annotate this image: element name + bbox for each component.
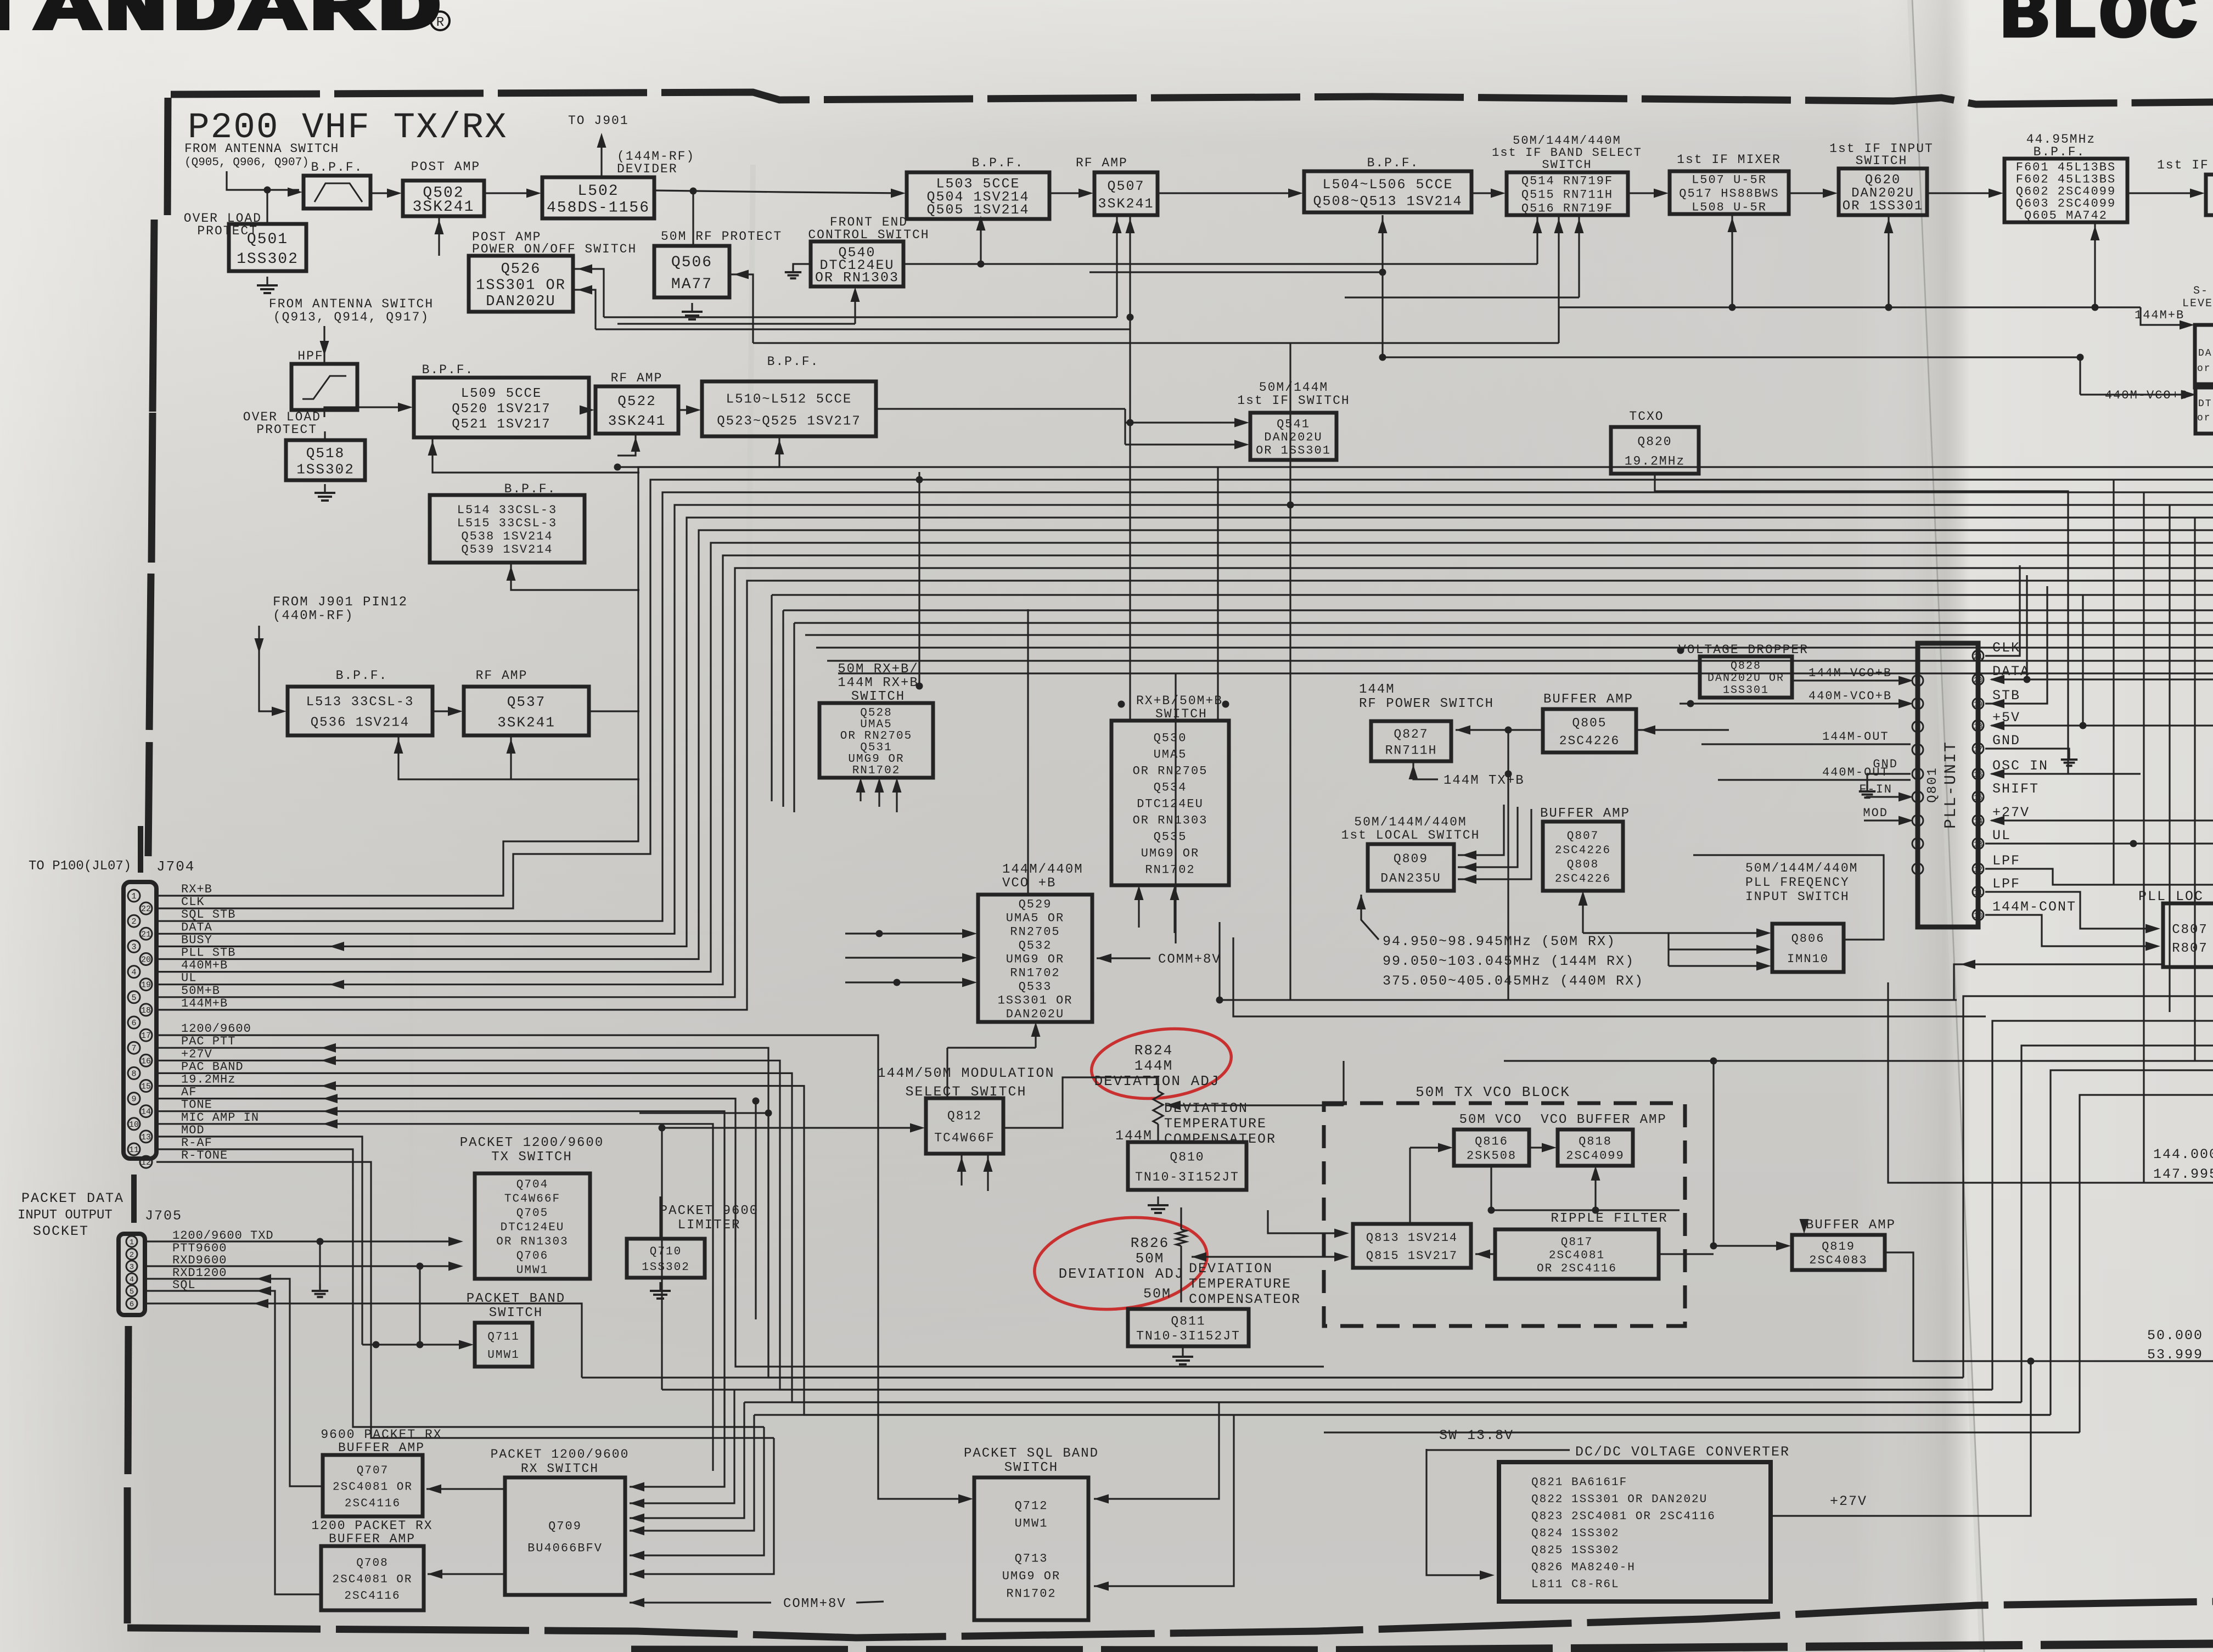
- svg-text:J704: J704: [156, 858, 195, 875]
- svg-text:Q707: Q707: [357, 1464, 389, 1477]
- svg-text:FROM ANTENNA SWITCH: FROM ANTENNA SWITCH: [269, 297, 434, 311]
- svg-text:1SS301 OR: 1SS301 OR: [998, 994, 1073, 1008]
- svg-text:50M/144M: 50M/144M: [1259, 380, 1328, 395]
- svg-text:16: 16: [1974, 771, 1983, 779]
- svg-text:RF POWER SWITCH: RF POWER SWITCH: [1359, 696, 1494, 711]
- svg-text:10: 10: [129, 1120, 139, 1130]
- svg-text:or: or: [2197, 413, 2211, 424]
- svg-text:DAN202U: DAN202U: [1006, 1008, 1064, 1021]
- svg-text:2SC4226: 2SC4226: [1555, 873, 1611, 885]
- svg-text:TCXO: TCXO: [1629, 409, 1664, 424]
- svg-text:Q521 1SV217: Q521 1SV217: [452, 417, 551, 432]
- svg-text:94.950~98.945MHz (50M RX): 94.950~98.945MHz (50M RX): [1383, 934, 1616, 949]
- svg-text:Q713: Q713: [1015, 1552, 1048, 1566]
- svg-text:SWITCH: SWITCH: [489, 1306, 543, 1321]
- svg-text:1st IF SWITCH: 1st IF SWITCH: [1237, 394, 1350, 408]
- svg-text:DC/DC VOLTAGE CONVERTER: DC/DC VOLTAGE CONVERTER: [1575, 1444, 1790, 1460]
- svg-text:UMW1: UMW1: [487, 1349, 519, 1362]
- svg-text:Q505 1SV214: Q505 1SV214: [926, 202, 1029, 218]
- svg-text:Q824 1SS302: Q824 1SS302: [1531, 1527, 1620, 1540]
- svg-text:SOCKET: SOCKET: [33, 1223, 89, 1239]
- svg-text:2SC4081 OR: 2SC4081 OR: [332, 1574, 412, 1586]
- svg-text:TO J901: TO J901: [568, 114, 629, 128]
- svg-text:OR RN1303: OR RN1303: [815, 269, 899, 285]
- svg-text:Q709: Q709: [548, 1520, 582, 1533]
- svg-text:AF: AF: [181, 1086, 196, 1099]
- svg-text:5: 5: [130, 1288, 134, 1296]
- svg-text:50M: 50M: [1143, 1286, 1171, 1302]
- svg-text:10: 10: [1974, 912, 1983, 920]
- svg-text:RF AMP: RF AMP: [611, 371, 663, 385]
- svg-text:PLL-UNIT: PLL-UNIT: [1942, 741, 1961, 829]
- svg-text:1: 1: [1916, 677, 1920, 686]
- svg-text:1st IF MIXER: 1st IF MIXER: [1677, 153, 1781, 167]
- svg-text:Q518: Q518: [306, 445, 345, 462]
- svg-text:RIPPLE FILTER: RIPPLE FILTER: [1551, 1211, 1667, 1226]
- svg-text:RN1702: RN1702: [852, 765, 901, 777]
- svg-text:99.050~103.045MHz (144M RX): 99.050~103.045MHz (144M RX): [1383, 953, 1635, 969]
- svg-text:3: 3: [1916, 723, 1920, 732]
- svg-text:L508 U-5R: L508 U-5R: [1692, 201, 1767, 215]
- svg-text:11: 11: [1974, 889, 1983, 897]
- svg-text:UMG9 OR: UMG9 OR: [848, 753, 904, 766]
- svg-text:Q507: Q507: [1107, 178, 1144, 194]
- svg-text:TANDARD: TANDARD: [0, 0, 446, 50]
- svg-text:Q531: Q531: [860, 741, 892, 754]
- svg-text:DT: DT: [2198, 398, 2212, 409]
- svg-text:144M-VCO+B: 144M-VCO+B: [1808, 666, 1892, 680]
- svg-text:Q528: Q528: [860, 707, 892, 720]
- svg-text:BU4066BFV: BU4066BFV: [527, 1542, 603, 1555]
- svg-text:2SK508: 2SK508: [1467, 1149, 1516, 1163]
- svg-text:FROM J901 PIN12: FROM J901 PIN12: [273, 595, 408, 610]
- svg-text:1SS301: 1SS301: [1723, 684, 1769, 697]
- svg-text:6: 6: [131, 1019, 136, 1028]
- svg-text:144M RX+B: 144M RX+B: [838, 676, 919, 690]
- svg-text:OR 1SS301: OR 1SS301: [1256, 444, 1331, 458]
- svg-text:11: 11: [129, 1145, 139, 1155]
- svg-text:PROTECT: PROTECT: [256, 423, 317, 437]
- svg-text:PLL STB: PLL STB: [181, 946, 235, 960]
- svg-text:50M/144M/440M: 50M/144M/440M: [1745, 861, 1858, 875]
- svg-text:OR RN1303: OR RN1303: [496, 1235, 568, 1248]
- svg-text:SWITCH: SWITCH: [1856, 154, 1908, 168]
- svg-text:Q820: Q820: [1637, 435, 1672, 449]
- svg-text:1SS302: 1SS302: [237, 251, 299, 268]
- svg-text:19.2MHz: 19.2MHz: [181, 1073, 235, 1087]
- svg-text:PAC PTT: PAC PTT: [181, 1035, 235, 1048]
- svg-text:1st IF: 1st IF: [2157, 158, 2209, 172]
- svg-text:PACKET SQL BAND: PACKET SQL BAND: [964, 1446, 1099, 1461]
- svg-text:50M: 50M: [1136, 1250, 1165, 1267]
- svg-text:MOD: MOD: [1863, 806, 1888, 820]
- svg-text:L811 C8-R6L: L811 C8-R6L: [1531, 1578, 1620, 1591]
- svg-text:L513 33CSL-3: L513 33CSL-3: [306, 695, 414, 710]
- svg-text:DAN202U: DAN202U: [486, 294, 555, 310]
- svg-text:Q520 1SV217: Q520 1SV217: [452, 402, 551, 417]
- svg-text:7: 7: [1916, 817, 1920, 826]
- svg-text:Q807: Q807: [1567, 830, 1599, 842]
- svg-text:1200 PACKET RX: 1200 PACKET RX: [311, 1519, 433, 1533]
- svg-text:50M VCO: 50M VCO: [1459, 1112, 1523, 1127]
- svg-text:BUFFER AMP: BUFFER AMP: [1806, 1218, 1896, 1233]
- svg-text:17: 17: [1974, 745, 1983, 754]
- svg-text:DATA: DATA: [181, 920, 212, 934]
- svg-text:12: 12: [1974, 866, 1983, 874]
- svg-text:MOD: MOD: [181, 1123, 205, 1137]
- svg-text:1SS301 OR: 1SS301 OR: [476, 277, 566, 294]
- svg-text:OR 1SS301: OR 1SS301: [1843, 199, 1924, 214]
- svg-text:Q809: Q809: [1394, 852, 1428, 866]
- svg-text:TC4W66F: TC4W66F: [504, 1193, 560, 1205]
- svg-text:UMG9 OR: UMG9 OR: [1006, 953, 1064, 967]
- svg-text:(440M-RF): (440M-RF): [273, 609, 354, 623]
- svg-text:Q605 MA742: Q605 MA742: [2024, 209, 2108, 223]
- svg-text:3SK241: 3SK241: [1098, 196, 1154, 212]
- svg-text:440M-VCO+B: 440M-VCO+B: [1808, 689, 1892, 703]
- svg-text:DEVIATION ADJ: DEVIATION ADJ: [1094, 1073, 1220, 1089]
- svg-text:144M/50M MODULATION: 144M/50M MODULATION: [877, 1065, 1054, 1081]
- svg-text:20: 20: [141, 956, 151, 965]
- svg-text:TEMPERATURE: TEMPERATURE: [1164, 1116, 1267, 1132]
- svg-text:DEVIATION: DEVIATION: [1189, 1261, 1273, 1277]
- svg-text:Q817: Q817: [1561, 1236, 1593, 1249]
- svg-text:8: 8: [1916, 840, 1920, 849]
- svg-text:BLOC: BLOC: [1999, 0, 2199, 58]
- svg-text:17: 17: [141, 1031, 151, 1041]
- svg-text:SQL: SQL: [172, 1278, 196, 1292]
- svg-text:CLK: CLK: [1992, 640, 2020, 656]
- svg-text:PACKET 1200/9600: PACKET 1200/9600: [460, 1136, 604, 1150]
- svg-text:or: or: [2197, 363, 2211, 374]
- svg-text:Q515 RN711H: Q515 RN711H: [1521, 188, 1613, 202]
- svg-text:RX SWITCH: RX SWITCH: [521, 1462, 599, 1476]
- svg-text:DEVIDER: DEVIDER: [617, 162, 678, 176]
- svg-text:21: 21: [1974, 653, 1983, 661]
- svg-text:2: 2: [130, 1251, 134, 1260]
- svg-text:SWITCH: SWITCH: [1004, 1460, 1058, 1475]
- svg-text:144M: 144M: [1359, 682, 1395, 697]
- svg-text:Q811: Q811: [1171, 1314, 1205, 1329]
- svg-text:Q710: Q710: [650, 1246, 682, 1258]
- svg-text:50M RF PROTECT: 50M RF PROTECT: [661, 229, 782, 244]
- svg-text:R-AF: R-AF: [181, 1136, 212, 1150]
- svg-text:Q822 1SS301 OR DAN202U: Q822 1SS301 OR DAN202U: [1531, 1493, 1708, 1506]
- svg-text:144M-OUT: 144M-OUT: [1822, 730, 1889, 744]
- svg-text:1: 1: [130, 1238, 134, 1247]
- svg-text:2SC4226: 2SC4226: [1555, 844, 1611, 857]
- svg-text:3SK241: 3SK241: [413, 199, 475, 216]
- svg-text:Q801: Q801: [1925, 767, 1940, 803]
- svg-text:144M+B: 144M+B: [181, 997, 228, 1010]
- svg-text:VCO +B: VCO +B: [1002, 876, 1056, 891]
- svg-text:OR RN2705: OR RN2705: [1133, 765, 1208, 778]
- svg-text:Q819: Q819: [1822, 1240, 1855, 1254]
- svg-text:CLK: CLK: [181, 895, 205, 909]
- svg-text:Q535: Q535: [1154, 830, 1187, 844]
- svg-text:BUFFER AMP: BUFFER AMP: [1543, 692, 1633, 707]
- svg-text:UMA5: UMA5: [1154, 748, 1187, 762]
- svg-text:Q813 1SV214: Q813 1SV214: [1366, 1231, 1458, 1245]
- svg-text:Q823 2SC4081 OR 2SC4116: Q823 2SC4081 OR 2SC4116: [1531, 1510, 1716, 1523]
- svg-text:L515 33CSL-3: L515 33CSL-3: [457, 516, 557, 530]
- svg-text:RX+B: RX+B: [181, 883, 212, 896]
- svg-text:COMPENSATEOR: COMPENSATEOR: [1164, 1131, 1276, 1147]
- svg-text:Q539 1SV214: Q539 1SV214: [461, 543, 553, 557]
- svg-text:Q514 RN719F: Q514 RN719F: [1521, 175, 1613, 188]
- svg-text:LEVEL: LEVEL: [2182, 297, 2213, 310]
- svg-text:12: 12: [141, 1158, 151, 1167]
- svg-text:Q821 BA6161F: Q821 BA6161F: [1531, 1476, 1627, 1489]
- svg-text:Q529: Q529: [1019, 898, 1052, 912]
- svg-text:Q532: Q532: [1019, 939, 1052, 953]
- svg-text:458DS-1156: 458DS-1156: [547, 200, 650, 217]
- svg-text:B.P.F.: B.P.F.: [336, 668, 388, 683]
- svg-text:2SC4081: 2SC4081: [1549, 1249, 1605, 1262]
- svg-text:TN10-3I152JT: TN10-3I152JT: [1135, 1170, 1239, 1184]
- svg-text:Q816: Q816: [1475, 1135, 1508, 1149]
- svg-text:Q826 MA8240-H: Q826 MA8240-H: [1531, 1561, 1636, 1574]
- svg-text:UMA5: UMA5: [860, 718, 892, 731]
- svg-text:R824: R824: [1134, 1042, 1173, 1059]
- svg-text:OR RN1303: OR RN1303: [1133, 814, 1208, 828]
- svg-text:Q541: Q541: [1277, 418, 1310, 431]
- svg-text:DTC124EU: DTC124EU: [1137, 797, 1204, 811]
- svg-text:UMA5 OR: UMA5 OR: [1006, 912, 1064, 925]
- svg-text:COMM+8V: COMM+8V: [783, 1597, 846, 1611]
- svg-text:Q711: Q711: [487, 1331, 519, 1344]
- svg-text:PACKET DATA: PACKET DATA: [21, 1190, 124, 1206]
- svg-text:COMM+8V: COMM+8V: [1158, 952, 1221, 967]
- svg-text:Q506: Q506: [671, 254, 712, 271]
- svg-text:DTC124EU: DTC124EU: [501, 1221, 565, 1234]
- svg-text:Q825 1SS302: Q825 1SS302: [1531, 1544, 1620, 1557]
- svg-text:Q810: Q810: [1170, 1150, 1204, 1164]
- svg-text:BUFFER AMP: BUFFER AMP: [1540, 806, 1630, 821]
- svg-text:Q708: Q708: [356, 1557, 388, 1570]
- svg-text:SQL STB: SQL STB: [181, 908, 235, 921]
- svg-text:50M TX VCO BLOCK: 50M TX VCO BLOCK: [1416, 1084, 1570, 1100]
- svg-text:1200/9600 TXD: 1200/9600 TXD: [172, 1229, 274, 1243]
- svg-text:PACKET BAND: PACKET BAND: [467, 1291, 565, 1306]
- svg-text:+5V: +5V: [1992, 710, 2020, 726]
- svg-text:TONE: TONE: [181, 1098, 212, 1112]
- svg-text:3SK241: 3SK241: [497, 714, 555, 731]
- svg-text:L510~L512 5CCE: L510~L512 5CCE: [726, 392, 852, 407]
- svg-text:Q706: Q706: [516, 1250, 548, 1262]
- svg-text:MIC AMP IN: MIC AMP IN: [181, 1111, 259, 1125]
- svg-text:GND: GND: [1873, 757, 1898, 771]
- svg-text:19.2MHz: 19.2MHz: [1625, 454, 1686, 468]
- svg-text:Q508~Q513 1SV214: Q508~Q513 1SV214: [1313, 194, 1462, 210]
- svg-text:RXD9600: RXD9600: [172, 1254, 227, 1267]
- svg-text:TC4W66F: TC4W66F: [934, 1131, 995, 1145]
- svg-text:50M RX+B/: 50M RX+B/: [838, 662, 919, 677]
- svg-text:50M+B: 50M+B: [181, 984, 220, 998]
- svg-text:B.P.F.: B.P.F.: [311, 160, 363, 175]
- svg-text:4: 4: [1916, 746, 1920, 755]
- svg-text:2: 2: [1916, 700, 1920, 709]
- svg-text:B.P.F.: B.P.F.: [1367, 156, 1419, 170]
- svg-text:SW 13.8V: SW 13.8V: [1439, 1428, 1514, 1443]
- svg-text:19: 19: [1974, 700, 1983, 709]
- svg-text:Q536 1SV214: Q536 1SV214: [311, 716, 409, 731]
- svg-text:DA: DA: [2198, 348, 2212, 359]
- svg-text:TX SWITCH: TX SWITCH: [491, 1150, 572, 1165]
- svg-text:19: 19: [141, 981, 151, 990]
- svg-text:Q704: Q704: [516, 1178, 548, 1191]
- svg-text:L507 U-5R: L507 U-5R: [1692, 173, 1767, 187]
- svg-text:MA77: MA77: [671, 276, 712, 293]
- svg-text:L504~L506 5CCE: L504~L506 5CCE: [1322, 177, 1453, 193]
- svg-text:RN711H: RN711H: [1385, 743, 1437, 757]
- svg-text:PAC BAND: PAC BAND: [181, 1060, 244, 1074]
- svg-text:50.000: 50.000: [2147, 1328, 2203, 1344]
- svg-text:BUFFER AMP: BUFFER AMP: [329, 1532, 415, 1546]
- svg-text:IMN10: IMN10: [1787, 952, 1829, 966]
- svg-text:2SC4116: 2SC4116: [345, 1497, 401, 1510]
- svg-text:PACKET 1200/9600: PACKET 1200/9600: [491, 1447, 630, 1462]
- svg-text:1: 1: [131, 892, 136, 901]
- svg-text:DAN202U OR: DAN202U OR: [1708, 672, 1784, 685]
- svg-text:FROM ANTENNA SWITCH: FROM ANTENNA SWITCH: [184, 142, 339, 156]
- svg-text:144M-CONT: 144M-CONT: [1992, 899, 2076, 915]
- svg-text:S-: S-: [2193, 285, 2209, 297]
- svg-text:Q812: Q812: [947, 1109, 982, 1123]
- svg-text:22: 22: [141, 904, 151, 914]
- svg-text:2SC4226: 2SC4226: [1559, 734, 1620, 748]
- svg-text:J705: J705: [145, 1208, 182, 1224]
- svg-text:147.995M: 147.995M: [2153, 1166, 2213, 1182]
- svg-text:+27V: +27V: [181, 1047, 212, 1061]
- svg-text:Q517 HS88BWS: Q517 HS88BWS: [1679, 187, 1779, 201]
- svg-text:9600 PACKET RX: 9600 PACKET RX: [321, 1428, 442, 1442]
- svg-text:Q815 1SV217: Q815 1SV217: [1366, 1249, 1458, 1263]
- svg-text:Q827: Q827: [1394, 727, 1428, 741]
- svg-text:B.P.F.: B.P.F.: [767, 355, 819, 369]
- svg-text:Q533: Q533: [1019, 980, 1052, 994]
- svg-text:L514 33CSL-3: L514 33CSL-3: [457, 503, 557, 517]
- svg-text:SHIFT: SHIFT: [1992, 781, 2039, 797]
- svg-text:R-TONE: R-TONE: [181, 1149, 228, 1162]
- svg-text:B.P.F.: B.P.F.: [972, 156, 1024, 170]
- svg-text:9: 9: [1916, 866, 1920, 874]
- svg-text:440M+B: 440M+B: [181, 959, 228, 973]
- svg-text:R826: R826: [1131, 1235, 1169, 1251]
- svg-text:UL: UL: [181, 971, 196, 985]
- svg-text:14: 14: [1974, 817, 1983, 826]
- svg-text:DEVIATION: DEVIATION: [1164, 1100, 1248, 1116]
- svg-text:DEVIATION ADJ: DEVIATION ADJ: [1059, 1266, 1184, 1282]
- svg-text:DAN202U: DAN202U: [1264, 431, 1322, 445]
- svg-text:F-IN: F-IN: [1859, 783, 1892, 796]
- svg-text:UMW1: UMW1: [516, 1264, 548, 1277]
- svg-text:13: 13: [1974, 840, 1983, 849]
- svg-text:16: 16: [141, 1057, 151, 1066]
- svg-text:OR 2SC4116: OR 2SC4116: [1537, 1262, 1617, 1275]
- svg-text:RF AMP: RF AMP: [1076, 156, 1128, 170]
- svg-text:Q818: Q818: [1579, 1135, 1612, 1149]
- svg-text:VCO BUFFER AMP: VCO BUFFER AMP: [1541, 1112, 1667, 1127]
- svg-text:144M TX+B: 144M TX+B: [1443, 773, 1525, 788]
- svg-text:RN1702: RN1702: [1006, 1587, 1056, 1601]
- svg-text:TN10-3I152JT: TN10-3I152JT: [1136, 1329, 1240, 1344]
- svg-text:UMW1: UMW1: [1015, 1517, 1048, 1531]
- svg-text:144M/440M: 144M/440M: [1002, 862, 1083, 877]
- svg-text:5: 5: [1916, 771, 1920, 779]
- svg-text:PLL FREQENCY: PLL FREQENCY: [1745, 875, 1850, 890]
- svg-text:LPF: LPF: [1992, 853, 2020, 869]
- svg-text:Q805: Q805: [1572, 716, 1607, 730]
- svg-text:Q534: Q534: [1154, 781, 1187, 795]
- svg-text:6: 6: [1916, 794, 1920, 802]
- svg-text:375.050~405.045MHz (440M RX): 375.050~405.045MHz (440M RX): [1383, 973, 1644, 989]
- svg-text:4: 4: [130, 1275, 134, 1284]
- svg-text:(Q913, Q914, Q917): (Q913, Q914, Q917): [273, 310, 429, 324]
- svg-text:BUSY: BUSY: [181, 933, 212, 947]
- svg-text:18: 18: [141, 1006, 151, 1015]
- svg-text:20: 20: [1974, 676, 1983, 685]
- svg-text:Q712: Q712: [1015, 1499, 1048, 1513]
- svg-text:144.000~: 144.000~: [2153, 1147, 2213, 1162]
- svg-text:50M/144M/440M: 50M/144M/440M: [1354, 815, 1467, 829]
- svg-text:Q523~Q525 1SV217: Q523~Q525 1SV217: [717, 414, 861, 429]
- svg-text:POST AMP: POST AMP: [411, 160, 480, 174]
- svg-text:1st LOCAL SWITCH: 1st LOCAL SWITCH: [1341, 828, 1480, 842]
- svg-text:15: 15: [1974, 794, 1983, 802]
- svg-text:14: 14: [141, 1108, 151, 1117]
- svg-text:Q522: Q522: [617, 393, 656, 409]
- svg-text:TEMPERATURE: TEMPERATURE: [1189, 1276, 1291, 1292]
- svg-text:15: 15: [141, 1082, 151, 1092]
- svg-text:2: 2: [131, 917, 136, 926]
- svg-text:BUFFER AMP: BUFFER AMP: [338, 1441, 425, 1455]
- svg-text:Q516 RN719F: Q516 RN719F: [1521, 202, 1613, 216]
- svg-text:3: 3: [130, 1263, 134, 1272]
- svg-text:UL: UL: [1992, 828, 2011, 844]
- svg-text:8: 8: [131, 1069, 136, 1078]
- svg-text:Q526: Q526: [501, 261, 541, 278]
- svg-text:144M+B: 144M+B: [2135, 308, 2184, 322]
- svg-text:B.P.F.: B.P.F.: [422, 363, 474, 377]
- svg-text:Q537: Q537: [507, 694, 546, 710]
- svg-text:RX+B/50M+B: RX+B/50M+B: [1136, 694, 1223, 708]
- svg-text:1SS302: 1SS302: [296, 461, 355, 477]
- svg-text:R: R: [436, 15, 444, 30]
- svg-text:2SC4081 OR: 2SC4081 OR: [333, 1481, 413, 1493]
- svg-text:9: 9: [131, 1095, 136, 1104]
- svg-text:Q808: Q808: [1567, 858, 1599, 871]
- svg-text:Q530: Q530: [1154, 732, 1187, 745]
- svg-text:RF AMP: RF AMP: [476, 668, 528, 683]
- svg-text:18: 18: [1974, 722, 1983, 731]
- svg-text:RN2705: RN2705: [1010, 925, 1060, 939]
- svg-text:21: 21: [141, 930, 151, 939]
- svg-text:L509 5CCE: L509 5CCE: [461, 386, 542, 401]
- svg-text:SWITCH: SWITCH: [1542, 158, 1592, 172]
- svg-text:COMPENSATEOR: COMPENSATEOR: [1189, 1291, 1301, 1307]
- svg-text:2SC4083: 2SC4083: [1809, 1254, 1867, 1267]
- svg-text:LPF: LPF: [1992, 876, 2020, 892]
- svg-text:Q538 1SV214: Q538 1SV214: [461, 530, 553, 543]
- svg-text:INPUT SWITCH: INPUT SWITCH: [1745, 890, 1850, 904]
- svg-text:13: 13: [141, 1133, 151, 1142]
- svg-text:1200/9600: 1200/9600: [181, 1022, 251, 1036]
- svg-text:INPUT OUTPUT: INPUT OUTPUT: [18, 1208, 113, 1223]
- svg-text:L502: L502: [577, 183, 619, 200]
- svg-text:TO P100(JL07): TO P100(JL07): [29, 859, 131, 874]
- svg-text:STB: STB: [1992, 688, 2020, 704]
